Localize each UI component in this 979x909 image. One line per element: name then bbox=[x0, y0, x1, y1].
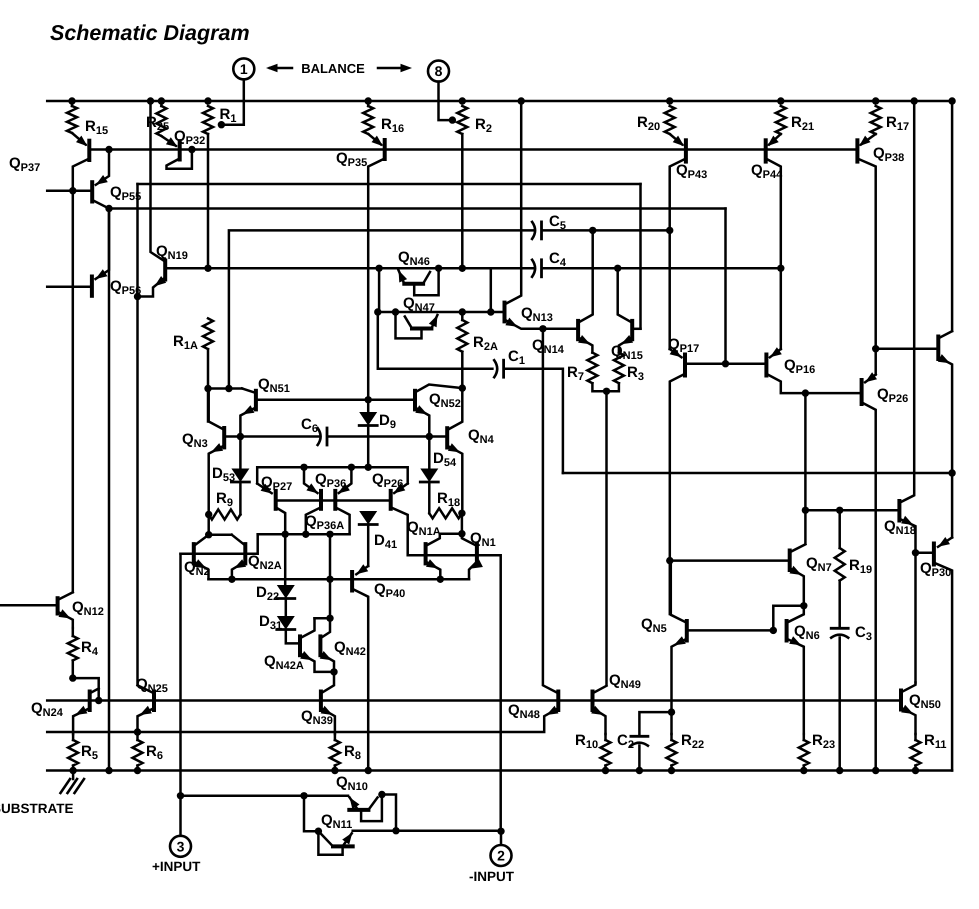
wire QN48 emitter bbox=[47, 706, 558, 732]
wire R4 bottom bbox=[72, 661, 75, 679]
node QP16C-QN7C bbox=[802, 389, 809, 396]
wire emitter rail bbox=[209, 578, 470, 581]
wire QN15 base riser bbox=[639, 184, 642, 329]
wire QN47 loop bbox=[396, 312, 422, 338]
wire substrate stem bbox=[72, 771, 75, 780]
label QN2A bbox=[248, 553, 282, 572]
node R4-QN24 loop bbox=[69, 674, 76, 681]
wire QP26L collector bbox=[391, 507, 408, 555]
node V- rail bbox=[668, 767, 675, 774]
wire R11 top lead bbox=[914, 734, 917, 740]
label R7 bbox=[567, 364, 584, 383]
wire QN10 loop bbox=[361, 795, 382, 822]
wire C1 right bbox=[505, 369, 563, 473]
label QN42A bbox=[264, 653, 304, 672]
label QN13 bbox=[521, 305, 553, 324]
wire QN50 emitter bbox=[901, 705, 916, 734]
resistor R4 bbox=[68, 636, 78, 661]
label QP55 bbox=[110, 184, 141, 203]
label R19 bbox=[849, 557, 872, 576]
balance label bbox=[301, 61, 365, 76]
node QN42 riser top bbox=[326, 531, 333, 538]
label QP27 bbox=[261, 474, 292, 493]
transistor QN50 bbox=[901, 683, 916, 710]
wire QP17 collector bbox=[670, 374, 685, 614]
wire V+ top rail bbox=[47, 100, 952, 103]
transistor QP36 bbox=[304, 467, 351, 509]
wire QN24 emitter bbox=[73, 706, 90, 734]
transistor QN14 bbox=[578, 230, 593, 339]
resistor R7 bbox=[587, 353, 597, 384]
transistor QN46 bbox=[399, 270, 431, 283]
wire QN3 emitter bbox=[209, 443, 225, 514]
wire R7 bottom bbox=[592, 383, 606, 391]
wire QN2A emitter bbox=[232, 559, 246, 579]
wire R6 top lead bbox=[136, 734, 139, 740]
pin 3 +INPUT bbox=[170, 836, 191, 857]
transistor QN42A bbox=[300, 618, 315, 655]
node R1A-QN3C bbox=[204, 385, 211, 392]
node V- rail bbox=[800, 767, 807, 774]
label QP30 bbox=[920, 560, 951, 579]
wire C2 bottom bbox=[638, 746, 641, 771]
resistor R23 bbox=[799, 740, 809, 766]
node QN7 base tap bbox=[666, 557, 673, 564]
label R17 bbox=[886, 114, 909, 133]
wire QN15 emitter bbox=[619, 335, 633, 353]
resistor R11 bbox=[911, 740, 921, 766]
wire QN11 loop bbox=[318, 831, 342, 855]
pin 2 -INPUT bbox=[491, 845, 512, 866]
wire R19-C3 bbox=[838, 581, 841, 626]
transistor QN1 bbox=[462, 534, 477, 564]
transistor QN15 bbox=[618, 268, 641, 339]
wire QN6 base loop bbox=[773, 606, 804, 631]
wire R10 bottom bbox=[604, 766, 607, 771]
node rail472 end bbox=[948, 469, 955, 476]
transistor QP32 bbox=[161, 136, 179, 160]
label QN6 bbox=[794, 623, 820, 642]
wire QN2 base rail bbox=[181, 534, 258, 554]
wire QN1 base rail bbox=[408, 555, 501, 831]
label QN18 bbox=[884, 518, 916, 537]
wire R11 bottom bbox=[914, 766, 917, 771]
wire R22 bottom bbox=[670, 766, 673, 771]
wire R6 bottom bbox=[136, 766, 139, 771]
resistor R16 bbox=[363, 106, 373, 134]
resistor R19 bbox=[835, 548, 845, 581]
transistor QN5 bbox=[671, 561, 774, 641]
wire QN1A coll link bbox=[440, 532, 462, 535]
node QN52E-C6 bbox=[426, 433, 433, 440]
label D22 bbox=[256, 584, 279, 603]
wire QN25 emitter bbox=[138, 706, 155, 732]
capacitor C3 bbox=[831, 628, 848, 637]
node V+ rail bbox=[68, 97, 75, 104]
wire QN42 emitter bbox=[320, 651, 334, 672]
wire QN42 loop bbox=[315, 617, 331, 620]
label D54 bbox=[433, 450, 457, 469]
wire R4 top lead bbox=[72, 628, 75, 636]
transistor QN1A bbox=[426, 534, 440, 564]
label D9 bbox=[379, 412, 396, 431]
label C2 bbox=[617, 732, 634, 751]
transistor QN24 bbox=[90, 689, 99, 711]
wire R23 bottom bbox=[803, 766, 806, 771]
label QN1 bbox=[470, 530, 496, 549]
wire R5 top lead bbox=[72, 734, 75, 740]
node QP55 collector bbox=[105, 205, 112, 212]
node V+ rail bbox=[158, 97, 165, 104]
diode D9 bbox=[359, 412, 377, 426]
pin 1 BALANCE bbox=[233, 58, 254, 79]
label R4 bbox=[81, 639, 99, 658]
label QP38 bbox=[873, 145, 904, 164]
label QP44 bbox=[751, 162, 783, 181]
transistor QP30 bbox=[916, 537, 953, 565]
transistor QN13 bbox=[505, 101, 522, 321]
resistor R25 bbox=[156, 106, 166, 136]
transistor QP26L bbox=[391, 483, 408, 508]
wire C5 left bbox=[229, 230, 534, 388]
transistor QP37 bbox=[72, 133, 89, 160]
wire QP27 collector bbox=[276, 507, 286, 534]
wire R5 bottom bbox=[72, 766, 75, 771]
node QN1 collector bbox=[458, 530, 465, 537]
wire C2 branch bbox=[639, 712, 671, 734]
wire R3 bottom bbox=[607, 383, 619, 391]
wire QN13 base drop bbox=[490, 268, 493, 312]
node D22 top bbox=[282, 531, 289, 538]
wire D9 bottom bbox=[367, 426, 370, 468]
label QN48 bbox=[508, 702, 540, 721]
resistor R17 bbox=[871, 106, 881, 134]
label QN4 bbox=[468, 427, 495, 446]
node QN2 collector bbox=[205, 531, 212, 538]
label QN3 bbox=[182, 431, 208, 450]
transistor QP55 bbox=[92, 150, 109, 202]
wire R2A leads bbox=[461, 312, 464, 388]
wire D54 bottom bbox=[428, 482, 431, 513]
wire R2 bottom bbox=[461, 134, 464, 268]
node C4-R3 drop bbox=[614, 265, 621, 272]
wire QP27 emitter rail bbox=[257, 467, 408, 483]
node R9 left bbox=[205, 511, 212, 518]
transistor QN6 bbox=[787, 606, 804, 641]
wire QN51-QN52 base bbox=[256, 399, 415, 402]
label QP26R bbox=[877, 386, 908, 405]
ground substrate bbox=[61, 779, 85, 793]
wire C4 right bbox=[543, 267, 781, 270]
node QN13E-QN48C bbox=[539, 325, 546, 332]
wire QP17 base bbox=[685, 362, 766, 365]
svg-text:BALANCE: BALANCE bbox=[301, 61, 365, 76]
node V- rail bbox=[602, 767, 609, 774]
transistor QN51 bbox=[242, 389, 256, 410]
transistor QP36A collectors bbox=[306, 507, 350, 534]
label R1A bbox=[173, 333, 198, 352]
label QP40 bbox=[374, 581, 405, 600]
node QN51E-C6 bbox=[237, 433, 244, 440]
wire QN47 line bbox=[378, 311, 505, 314]
label R3 bbox=[627, 364, 644, 383]
label D53 bbox=[212, 465, 235, 484]
label QP17 bbox=[668, 336, 699, 355]
node QN19 emitter join bbox=[134, 293, 141, 300]
transistor QP40 bbox=[352, 564, 368, 590]
capacitor C4 bbox=[532, 260, 541, 277]
wire +input riser bbox=[179, 554, 182, 836]
label R8 bbox=[344, 743, 361, 762]
node QN10 coll tie bbox=[378, 791, 385, 798]
wire QN13 emitter bbox=[505, 318, 579, 329]
label D31 bbox=[259, 613, 282, 632]
wire QP16 collector bbox=[766, 374, 861, 393]
transistor QN42 bbox=[320, 618, 330, 655]
wire QN25C riser bbox=[136, 184, 139, 685]
wire QP55 base line bbox=[47, 189, 92, 192]
wire QN5 emitter bbox=[672, 636, 687, 734]
label QN51 bbox=[258, 376, 290, 395]
svg-text:Schematic Diagram: Schematic Diagram bbox=[50, 21, 250, 45]
svg-text:-INPUT: -INPUT bbox=[469, 869, 515, 884]
wire D22 lead bbox=[284, 534, 287, 585]
node QP36 emitter L bbox=[300, 464, 307, 471]
wire C3 bottom bbox=[838, 638, 841, 771]
node QN46 loop tie bbox=[435, 265, 442, 272]
label R20 bbox=[637, 114, 660, 133]
node R7R3 join bbox=[603, 388, 610, 395]
label QN25 bbox=[136, 676, 168, 695]
transistor QP35 bbox=[368, 134, 385, 159]
wire comp rail 472 bbox=[563, 472, 952, 475]
resistor R21 bbox=[776, 106, 786, 134]
transistor QN2 bbox=[194, 535, 232, 564]
wire R25 top bbox=[160, 101, 163, 106]
label R22 bbox=[681, 732, 704, 751]
wire QN18 emitter bbox=[899, 516, 915, 683]
wire QN25C-QN15C link bbox=[138, 183, 641, 186]
label QN7 bbox=[806, 555, 832, 574]
node R19 top bbox=[836, 507, 843, 514]
label QN11 bbox=[321, 812, 352, 831]
label R5 bbox=[81, 743, 98, 762]
resistor R20 bbox=[665, 106, 675, 134]
label QN12 bbox=[72, 599, 104, 618]
label C6 bbox=[301, 416, 318, 435]
node QP55 emitter tap bbox=[105, 146, 112, 153]
wire R15 top bbox=[71, 101, 74, 106]
node QN42 tie bbox=[326, 615, 333, 622]
node QN18 base rail L bbox=[802, 507, 809, 514]
balance arrow left bbox=[266, 64, 292, 72]
transistor QN12 bbox=[0, 592, 73, 613]
label QP36A bbox=[305, 513, 344, 532]
label -INPUT bbox=[469, 869, 515, 884]
label QN5 bbox=[641, 616, 667, 635]
label R23 bbox=[812, 732, 835, 751]
title bbox=[50, 21, 250, 45]
transistor QN10 bbox=[349, 797, 377, 810]
resistor R2 bbox=[457, 106, 467, 134]
label QP35 bbox=[336, 150, 367, 169]
label D41 bbox=[374, 532, 397, 551]
transistor QP16 bbox=[766, 347, 781, 375]
node R2 line tie bbox=[459, 265, 466, 272]
node V- rail bbox=[365, 767, 372, 774]
node V- rail bbox=[105, 767, 112, 774]
node QN47 loop tie bbox=[392, 308, 399, 315]
label R21 bbox=[791, 114, 814, 133]
wire QN49 emitter bbox=[591, 706, 605, 734]
wire QN46-QN47 link bbox=[378, 268, 381, 312]
resistor R6 bbox=[133, 740, 143, 766]
wire R7R3 to QN49 bbox=[605, 391, 608, 685]
svg-text:2: 2 bbox=[497, 848, 505, 864]
label C5 bbox=[549, 213, 566, 232]
wire C6 line right bbox=[328, 435, 447, 438]
wire C5 right bbox=[543, 229, 670, 232]
transistor QN7 bbox=[670, 544, 806, 570]
resistor R22 bbox=[667, 740, 677, 766]
wire R8 bottom bbox=[334, 766, 337, 771]
label R25 bbox=[146, 114, 169, 133]
resistor R1 bbox=[203, 106, 213, 134]
transistor QP43 bbox=[670, 134, 686, 162]
label QN39 bbox=[301, 708, 333, 727]
transistor QN2A bbox=[232, 535, 246, 564]
wire QN10 emitter line bbox=[181, 795, 349, 798]
wire pin2 stem bbox=[500, 831, 503, 845]
wire QP36A loop bbox=[258, 533, 350, 536]
label R1 bbox=[220, 106, 237, 125]
resistor R9 bbox=[209, 510, 241, 520]
wire R10 top lead bbox=[604, 734, 607, 740]
resistor R2A bbox=[457, 320, 467, 352]
wire D53 bottom bbox=[239, 482, 242, 515]
transistor QP38 bbox=[857, 134, 875, 162]
wire QN46 loop bbox=[414, 268, 438, 295]
node QN10C join bbox=[392, 827, 399, 834]
wire QN3E drop bbox=[207, 515, 210, 535]
wire QN19 emitter bbox=[138, 276, 167, 297]
node QN6 base bbox=[770, 627, 777, 634]
label SUBSTRATE bbox=[0, 801, 74, 816]
wire QP26R collector bbox=[862, 402, 876, 770]
wire D22-D31 bbox=[285, 599, 288, 617]
node QN19 base-R1 bbox=[204, 265, 211, 272]
node C2 branch bbox=[668, 708, 675, 715]
transistor QN11 bbox=[320, 832, 353, 846]
label R10 bbox=[575, 732, 598, 751]
node QN24 coll tie bbox=[95, 697, 102, 704]
wire QN7 emitter bbox=[790, 566, 804, 606]
wire QP55C bus bbox=[109, 207, 726, 210]
label QN24 bbox=[31, 700, 64, 719]
label R18 bbox=[437, 490, 460, 509]
node QP37C-QP55base bbox=[69, 187, 76, 194]
label QP36 bbox=[315, 471, 346, 490]
transistor QN4 bbox=[447, 388, 462, 447]
wire D41 bottom bbox=[367, 525, 370, 567]
node QP36A coll tie bbox=[302, 531, 309, 538]
transistor QP17 bbox=[670, 347, 685, 375]
svg-text:SUBSTRATE: SUBSTRATE bbox=[0, 801, 74, 816]
node QN11 branch bbox=[300, 792, 307, 799]
transistor QN48 bbox=[543, 329, 558, 710]
node V+ rail bbox=[948, 97, 955, 104]
wire C6 line left bbox=[224, 435, 319, 438]
wire QP55 collector bbox=[92, 200, 109, 771]
label QN42 bbox=[334, 639, 366, 658]
wire QN42A emitter bbox=[300, 651, 334, 672]
wire QP32 collector loop bbox=[167, 150, 192, 169]
wire QN3C bus bbox=[208, 387, 242, 390]
wire QP40 collector bbox=[352, 589, 368, 771]
node QN47 line left bbox=[374, 308, 381, 315]
transistor QN25 bbox=[138, 685, 155, 710]
node V- rail bbox=[836, 767, 843, 774]
resistor R10 bbox=[601, 740, 611, 766]
node C4-QP44C bbox=[777, 265, 784, 272]
wire QP56 base line bbox=[47, 286, 92, 289]
node pin3 branch bbox=[177, 792, 184, 799]
wire QP30 collector bbox=[934, 563, 952, 771]
wire QN24 loop bbox=[73, 678, 99, 700]
wire R1 bottom bbox=[207, 134, 210, 268]
wire QN2 emitter bbox=[194, 559, 209, 579]
resistor R8 bbox=[330, 740, 340, 766]
label C3 bbox=[855, 624, 872, 643]
wire output base rail bbox=[47, 699, 901, 702]
node R2A bottom bbox=[459, 384, 466, 391]
label QN14 bbox=[532, 337, 565, 356]
resistor R18 bbox=[429, 508, 462, 518]
node V- rail bbox=[872, 767, 879, 774]
node V+ rail bbox=[459, 97, 466, 104]
pin 8 BALANCE bbox=[428, 61, 449, 82]
node QN2A emitter join bbox=[228, 576, 235, 583]
transistor QP44 bbox=[766, 134, 781, 162]
wire QN42 riser bbox=[329, 534, 332, 618]
label QN49 bbox=[609, 672, 641, 691]
transistor QNx bbox=[876, 331, 952, 359]
svg-text:1: 1 bbox=[240, 61, 248, 77]
label QN50 bbox=[909, 692, 941, 711]
label R2A bbox=[473, 334, 498, 353]
resistor R15 bbox=[67, 106, 77, 133]
node V+ rail bbox=[147, 97, 154, 104]
transistor QP27 bbox=[257, 484, 276, 509]
node QP17 base tap bbox=[722, 360, 729, 367]
wire V- bottom rail bbox=[47, 769, 952, 772]
capacitor C6 bbox=[318, 428, 327, 445]
resistor R3 bbox=[614, 353, 624, 384]
node QNx base tap bbox=[872, 345, 879, 352]
node R18 right bbox=[458, 510, 465, 517]
node V+ rail bbox=[518, 97, 525, 104]
wire R16 top bbox=[367, 101, 370, 106]
wire QN1A emitter bbox=[426, 559, 441, 579]
transistor QP26R bbox=[862, 372, 877, 404]
wire QN14 emitter bbox=[578, 335, 592, 353]
node D9-D41 bbox=[365, 464, 372, 471]
diode D54 bbox=[420, 469, 438, 483]
transistor QN39 bbox=[321, 672, 334, 710]
node pin2 branch bbox=[497, 828, 504, 835]
wire QP43 collector bbox=[670, 159, 686, 350]
node R2 tap bbox=[449, 116, 456, 123]
